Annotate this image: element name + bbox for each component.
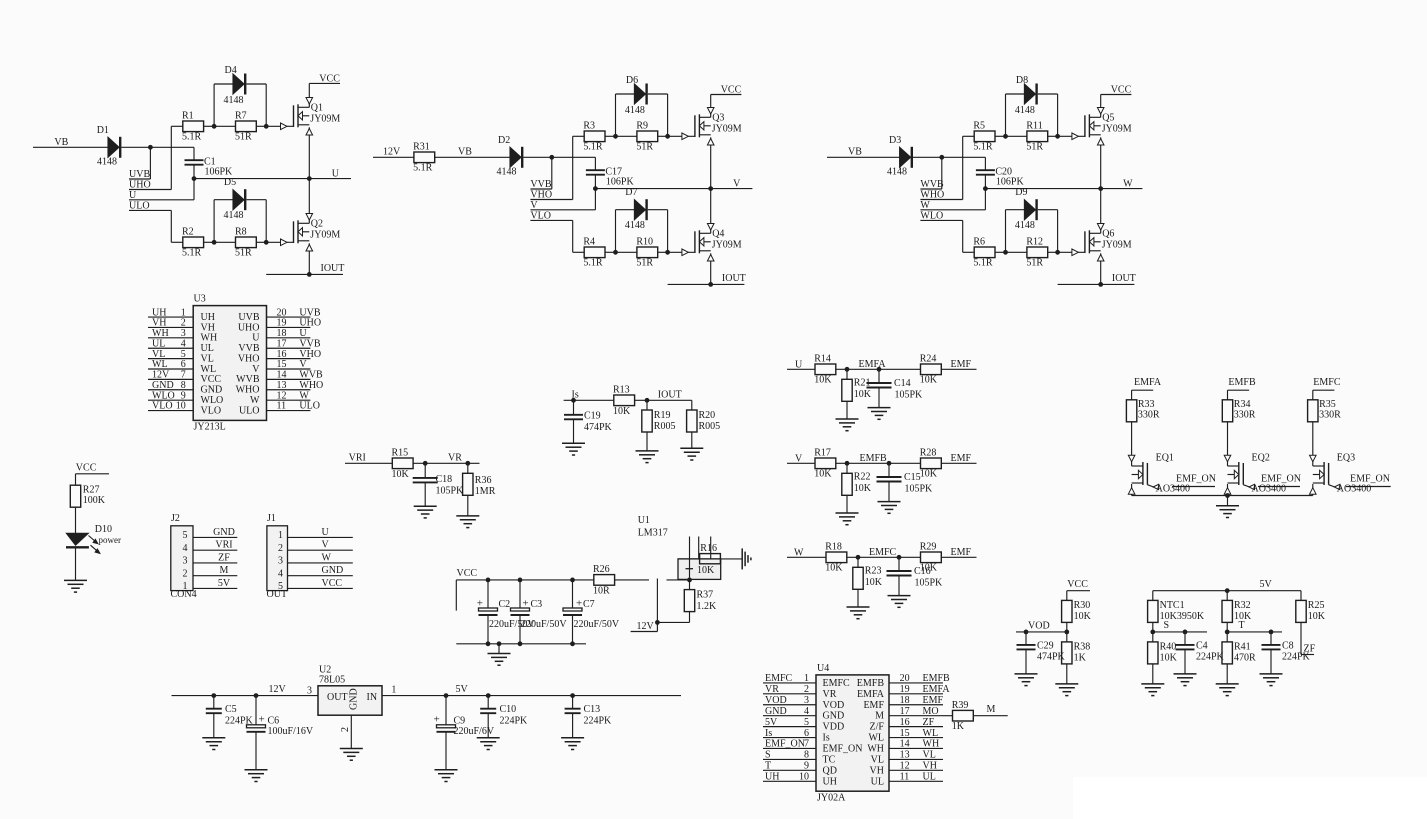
wire VB node to C riser [150,146,194,148]
svg-text:2: 2 [340,727,351,732]
svg-text:D7: D7 [625,187,637,198]
svg-text:4: 4 [278,568,283,579]
svg-text:EMF: EMF [923,695,944,706]
ground EQ bus [1216,496,1239,518]
svg-text:NTC1: NTC1 [1160,600,1185,611]
ground under C10 [477,738,500,750]
ground under C9 [435,770,458,782]
junction bottom C2 [486,641,491,646]
capacitor C2 220uF/50V [477,580,536,644]
svg-text:224PK: 224PK [584,715,613,726]
ground under R23 [847,607,870,619]
svg-text:EMFC: EMFC [765,673,793,684]
svg-text:D3: D3 [889,135,901,146]
junction at C16 [897,555,902,560]
node UHO [129,180,171,191]
svg-text:R28: R28 [920,447,937,458]
svg-text:5.1R: 5.1R [973,258,993,269]
svg-text:Q6: Q6 [1102,228,1114,239]
wire EQ2 source to bus [1227,484,1229,496]
svg-text:UL: UL [201,343,214,354]
junction 12V [655,620,660,625]
svg-text:VVB: VVB [530,179,551,190]
svg-text:5V: 5V [765,717,778,728]
junction bottom C7 [570,641,575,646]
svg-text:105PK: 105PK [915,578,944,589]
svg-text:5.1R: 5.1R [413,163,433,174]
IC U4 JY02A body [816,663,889,804]
svg-text:EMF_ON: EMF_ON [765,739,805,750]
svg-text:JY09M: JY09M [310,114,340,125]
wire U riser [193,179,195,200]
svg-text:J2: J2 [171,513,180,524]
svg-text:12V: 12V [637,621,655,632]
node IOUT sense [635,390,692,401]
svg-text:1: 1 [804,673,809,684]
wire Q2 source to IOUT [308,243,310,274]
junction top C2 [486,578,491,583]
junction Is at C19 [571,398,576,403]
svg-text:GND: GND [152,380,174,391]
svg-text:C14: C14 [894,378,911,389]
transistor EQ2 AO3400 [1224,453,1286,495]
svg-text:EMFC: EMFC [823,678,851,689]
wire to EMF node [836,462,921,464]
resistor R27 100K [70,484,106,507]
resistor R21 10K [842,369,872,419]
svg-text:VL: VL [871,754,884,765]
svg-text:224PK: 224PK [500,715,529,726]
wire 12V to R37 [657,621,689,623]
svg-text:UVB: UVB [129,169,150,180]
svg-text:5.1R: 5.1R [182,132,202,143]
svg-text:VCC: VCC [1067,579,1088,590]
node UVB [129,169,150,180]
ground right of R16 [742,548,751,569]
svg-text:VCC: VCC [319,73,340,84]
junction V bootstrap [549,155,554,160]
junction S at cap [1183,630,1188,635]
wire riser to UVB [149,147,151,179]
svg-text:IN: IN [367,692,378,703]
node S [1153,620,1207,632]
capacitor C14 105PK [867,369,924,407]
svg-text:2: 2 [278,543,283,554]
svg-text:V: V [322,540,330,551]
svg-text:UL: UL [923,771,936,782]
ground under C18 [414,506,437,518]
svg-text:16: 16 [900,717,910,728]
wire EQ1 source to bus [1131,484,1133,496]
svg-text:1.2K: 1.2K [697,601,718,612]
node T [1227,620,1282,632]
svg-text:+: + [434,714,440,726]
node VRI [345,452,392,463]
svg-text:51R: 51R [1026,142,1043,153]
svg-text:OUT: OUT [267,589,288,600]
svg-text:10K: 10K [920,563,938,574]
svg-text:105PK: 105PK [895,390,924,401]
node 12V input (V driver) [373,146,414,157]
wire Q5 drain to VCC [1100,95,1102,118]
svg-text:2: 2 [183,568,188,579]
svg-text:R17: R17 [814,447,831,458]
power VCC (VOD branch) [1067,579,1090,600]
capacitor C13 224PK [565,696,612,738]
svg-text:VRI: VRI [349,452,366,463]
svg-text:Q5: Q5 [1102,112,1114,123]
ground under C13 [561,738,584,750]
svg-text:V: V [733,178,741,189]
capacitor C15 105PK [877,463,934,501]
svg-text:C13: C13 [584,704,601,715]
resistor R38 1K [1062,632,1091,684]
wire V riser [594,189,596,210]
svg-text:12V: 12V [152,370,170,381]
svg-text:M: M [220,565,229,576]
svg-text:R26: R26 [593,564,610,575]
svg-text:AO3400: AO3400 [1252,484,1286,495]
svg-text:14: 14 [277,370,287,381]
svg-text:5V: 5V [456,684,469,695]
svg-text:EQ3: EQ3 [1337,453,1355,464]
svg-text:R20: R20 [699,410,716,421]
wire Q6 drain to W [1100,189,1102,234]
svg-text:Is: Is [823,733,830,744]
node EMF_ON at EQ1 gate [1147,474,1216,487]
resistor R25 10K [1296,591,1326,623]
svg-text:IOUT: IOUT [1112,273,1136,284]
svg-text:10K: 10K [1074,611,1092,622]
svg-text:19: 19 [277,318,287,329]
transistor Q2 JY09M [266,214,340,252]
node 5V rail [382,684,681,696]
svg-text:VOD: VOD [765,695,787,706]
ground under C15 [878,502,901,514]
svg-text:R23: R23 [865,566,882,577]
svg-text:224PK: 224PK [1196,652,1225,663]
svg-text:4148: 4148 [224,95,244,106]
capacitor C20 106PK [976,157,1025,188]
svg-text:JY09M: JY09M [310,230,340,241]
wire R40 to ground [1152,664,1154,684]
svg-text:T: T [1239,620,1245,631]
capacitor C17 106PK [586,157,635,188]
wire Q5 source to W [1100,137,1102,188]
svg-text:C10: C10 [500,704,517,715]
svg-text:GND: GND [765,706,787,717]
svg-text:470R: 470R [1234,653,1256,664]
svg-text:C19: C19 [584,410,601,421]
ground under C16 [888,596,911,608]
junction W at C [983,186,988,191]
wire Q3 source to V [710,137,712,188]
junction after R4 [613,250,618,255]
wire Q2 drain to U [308,179,310,224]
svg-text:R39: R39 [952,700,969,711]
junction W bootstrap [939,155,944,160]
svg-text:AO3400: AO3400 [1156,484,1190,495]
diode D9 4148 [1006,187,1058,252]
svg-text:S: S [1164,620,1170,631]
svg-text:105PK: 105PK [905,484,934,495]
resistor R31 5.1R [413,141,435,173]
svg-text:WL: WL [152,359,168,370]
svg-text:4: 4 [183,543,188,554]
svg-text:C3: C3 [531,599,543,610]
junction IOUT at Q6 [1098,282,1103,287]
svg-text:330R: 330R [1234,409,1256,420]
svg-text:330R: 330R [1319,409,1341,420]
svg-text:12V: 12V [383,146,401,157]
svg-text:EQ2: EQ2 [1252,453,1270,464]
svg-text:GND: GND [322,565,344,576]
svg-text:JY09M: JY09M [1102,124,1132,135]
node IOUT [668,273,746,285]
svg-text:VCC: VCC [201,374,222,385]
svg-text:MO: MO [923,706,939,717]
svg-text:D9: D9 [1015,187,1027,198]
resistor R9 51R [616,120,668,152]
power VCC (cap bank) [456,568,594,611]
IC U3 JY213L body [193,294,266,433]
ground under R36 [456,516,479,528]
wire cap bank bottom rail [456,643,586,645]
svg-text:D8: D8 [1016,75,1028,86]
wire Q4 drain to V [710,189,712,234]
diode D3 4148 [887,135,942,177]
resistor R22 10K [842,463,872,513]
svg-text:EMF: EMF [863,700,884,711]
junction after R2 [212,240,217,245]
ground under R21 [836,419,859,431]
node WHO [920,190,962,201]
resistor R8 51R [214,226,266,258]
wire VHO riser [572,136,574,199]
ground under R20 [680,448,703,460]
ground under C5 [202,738,225,750]
svg-text:10K: 10K [814,469,832,480]
svg-text:15: 15 [277,359,287,370]
node VOD [1016,620,1067,632]
resistor NTC1 10K3950K [1148,591,1205,623]
svg-text:13: 13 [900,750,910,761]
node EMF [941,359,976,370]
capacitor C4 224PK [1176,632,1225,674]
svg-text:19: 19 [900,684,910,695]
resistor R2 5.1R [171,226,214,258]
node EMFA [859,359,887,370]
svg-text:VRI: VRI [215,540,232,551]
junction top C7 [570,578,575,583]
node IOUT [266,263,344,275]
svg-text:M: M [875,711,884,722]
svg-text:R24: R24 [920,353,937,364]
resistor R33 330R [1126,390,1160,422]
junction VOD at R30 [1064,622,1069,634]
diode D8 4148 [1006,75,1058,136]
resistor R41 [1222,632,1232,664]
ground under C19 [562,443,585,455]
svg-text:ZF: ZF [218,552,230,563]
svg-text:C4: C4 [1196,640,1208,651]
connector J1 OUT body [267,513,288,600]
junction after R9 [665,134,670,139]
U4 left pins 1-10 nets EMFC VR VOD GND 5V Is EMF_ON S T UH [763,673,863,787]
wire Q6 source to IOUT [1100,253,1102,284]
svg-text:51R: 51R [1026,258,1043,269]
wire ULO riser [170,210,172,242]
svg-text:VLO: VLO [530,210,551,221]
svg-text:R005: R005 [654,421,676,432]
junction at C15 [887,461,892,466]
svg-text:D5: D5 [224,177,236,188]
junction after R10 [665,250,670,255]
svg-text:QD: QD [823,765,837,776]
node EMFC [1313,377,1341,390]
svg-text:5V: 5V [1260,579,1273,590]
svg-text:10K: 10K [920,469,938,480]
resistor R40 [1148,632,1158,664]
junction V at C [593,186,598,191]
svg-text:IOUT: IOUT [722,273,746,284]
svg-text:R41: R41 [1234,642,1251,653]
svg-text:AO3400: AO3400 [1337,484,1371,495]
svg-text:3: 3 [183,556,188,567]
svg-text:18: 18 [277,328,287,339]
wire Q1 drain to VCC [308,83,310,107]
diode D7 4148 [616,187,668,252]
node VB (V driver) [435,146,510,157]
junction after R7 [264,124,269,129]
svg-text:UH: UH [765,771,779,782]
svg-text:VR: VR [765,684,779,695]
wire UHO riser [170,126,172,189]
svg-text:1MR: 1MR [475,486,496,497]
svg-text:ZF: ZF [923,717,935,728]
transistor Q3 JY09M [668,108,742,146]
IC U2 78L05 [307,665,396,732]
svg-text:VCC: VCC [322,578,343,589]
ground under D10 [64,580,87,592]
capacitor C1 106PK [185,147,234,178]
IC U1 LM317 [638,515,721,579]
node EMFB [1228,377,1256,390]
svg-text:VB: VB [458,146,472,157]
junction bus ground [1225,493,1230,498]
junction VR at C18 [423,461,428,466]
wire pin17 to R39 [943,715,953,717]
svg-text:3: 3 [804,695,809,706]
resistor R26 10R [593,564,615,596]
node EMF [941,453,976,464]
svg-text:WL: WL [201,364,217,375]
svg-text:7: 7 [181,370,186,381]
junction T left [1225,622,1230,634]
capacitor C3 220uF/50V [511,580,568,644]
svg-text:2: 2 [804,684,809,695]
svg-text:+: + [576,598,582,610]
junction at R22 [845,461,850,466]
wire to EMF node [847,556,921,558]
svg-text:U: U [252,333,260,344]
svg-text:R32: R32 [1234,600,1251,611]
svg-text:JY02A: JY02A [817,793,846,804]
node EMF_ON at EQ2 gate [1243,474,1301,487]
junction U at C [192,176,197,181]
junction ground stem [497,641,502,646]
svg-text:U: U [299,328,307,339]
svg-text:4: 4 [181,338,186,349]
svg-text:3: 3 [181,328,186,339]
resistor R1 5.1R [171,110,214,142]
svg-text:VB: VB [54,137,68,148]
svg-text:GND: GND [348,688,359,710]
node VLO [530,210,572,221]
svg-text:Z/F: Z/F [870,722,885,733]
ground under C14 [868,408,891,420]
svg-text:VVB: VVB [238,343,259,354]
svg-text:106PK: 106PK [996,177,1025,188]
node EMFA [1132,377,1162,390]
svg-text:Q2: Q2 [311,218,323,229]
junction C13 [570,693,575,698]
svg-text:R4: R4 [583,236,595,247]
U4 right pins 20-11 nets EMFB EMFA EMF MO ZF WL WH VL VH UL [857,673,951,787]
svg-text:12: 12 [277,390,287,401]
svg-text:JY09M: JY09M [712,124,742,135]
power VCC [1101,85,1132,96]
svg-text:ULO: ULO [129,200,150,211]
svg-text:5.1R: 5.1R [973,142,993,153]
junction at R19 [645,398,650,403]
svg-text:EMFB: EMFB [923,673,951,684]
svg-text:12V: 12V [269,684,287,695]
svg-text:C9: C9 [454,715,466,726]
capacitor C8 224PK [1262,632,1311,674]
node W [920,200,985,211]
svg-text:EMFA: EMFA [857,689,885,700]
wire Q3 drain to VCC [710,95,712,118]
svg-text:4148: 4148 [497,167,517,178]
svg-text:J1: J1 [267,513,276,524]
resistor R14 10K [814,353,836,385]
svg-text:W: W [920,200,930,211]
capacitor C18 105PK [413,463,464,506]
junction U at Q1 source [307,176,312,181]
svg-text:C29: C29 [1037,640,1054,651]
U3 left pins 1-10 nets UH VH WH UL VL WL 12V GND WLO VLO [148,307,223,416]
svg-text:5V: 5V [218,578,231,589]
power VCC (LED branch) [76,463,110,486]
svg-text:UH: UH [152,307,166,318]
svg-text:10K: 10K [865,577,883,588]
ground under R40 [1141,684,1164,696]
node ZF [1301,622,1316,654]
svg-text:UVB: UVB [238,312,259,323]
svg-text:11: 11 [900,771,910,782]
resistor R40 labels [1160,642,1178,664]
svg-text:4148: 4148 [887,167,907,178]
svg-text:5.1R: 5.1R [583,142,603,153]
svg-text:51R: 51R [636,142,653,153]
svg-text:R34: R34 [1234,399,1251,410]
svg-text:U: U [129,190,137,201]
svg-text:VL: VL [923,750,936,761]
svg-text:8: 8 [181,380,186,391]
svg-text:VH: VH [923,761,937,772]
transistor Q4 JY09M [668,224,742,262]
